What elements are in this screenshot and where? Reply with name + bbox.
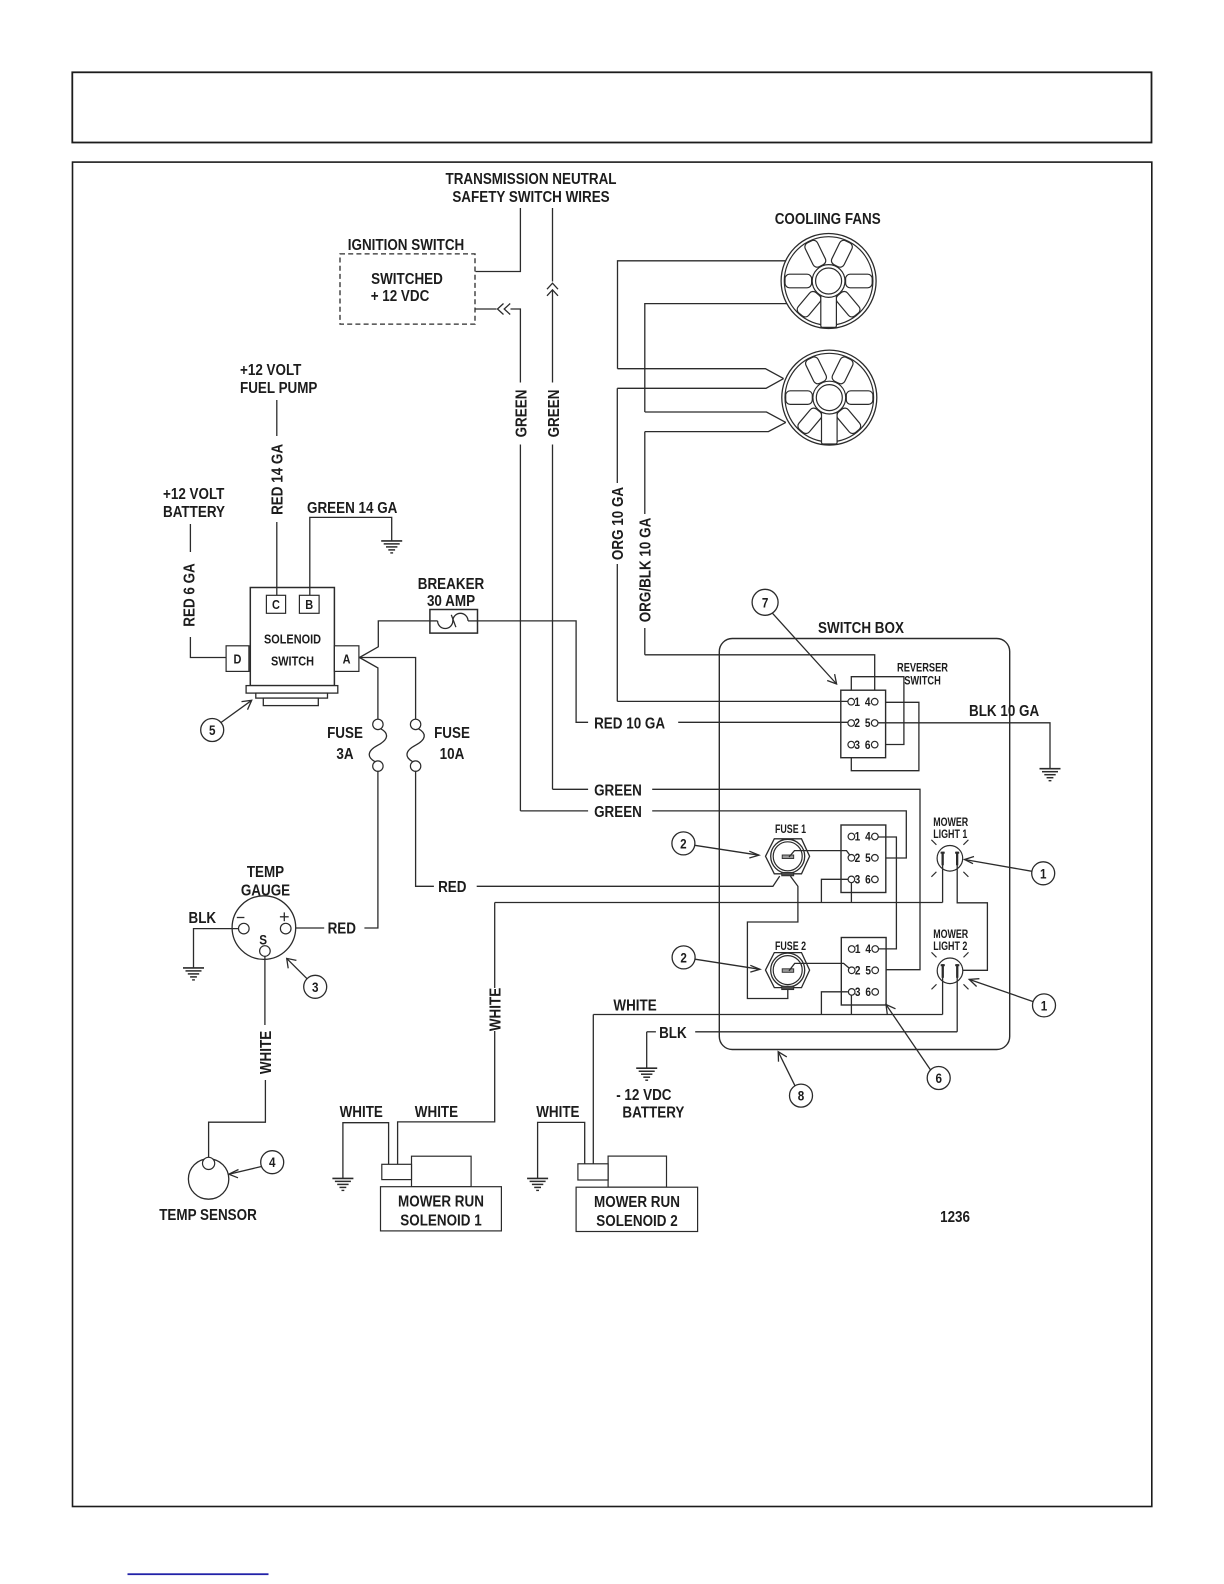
svg-text:WHITE: WHITE xyxy=(536,1104,580,1121)
svg-text:+ 12 VDC: + 12 VDC xyxy=(371,288,430,305)
wire: ignition switch lower output (green, to GREEN row 2) xyxy=(476,309,521,811)
wire: solenoid 2 ground branch xyxy=(538,1122,585,1178)
label: +12 VOLT BATTERY xyxy=(163,486,225,521)
ground (solenoid 2) xyxy=(527,1178,548,1190)
svg-text:SWITCH BOX: SWITCH BOX xyxy=(818,620,904,637)
svg-text:MOWER RUN: MOWER RUN xyxy=(594,1194,680,1211)
svg-text:- 12 VDC: - 12 VDC xyxy=(616,1087,672,1104)
wire: white row 2 (solenoid 2 feed / conn 2 pin 3 / light 2) xyxy=(593,992,942,1164)
svg-text:4: 4 xyxy=(269,1154,276,1170)
label: - 12 VDC BATTERY xyxy=(616,1087,684,1122)
svg-text:WHITE: WHITE xyxy=(340,1104,384,1121)
fuse 2 holder xyxy=(766,953,810,990)
svg-text:COOLIING FANS: COOLIING FANS xyxy=(775,211,881,228)
wire: solenoid 1 ground branch xyxy=(343,1123,389,1178)
label: BREAKER 30 AMP xyxy=(418,576,485,610)
svg-text:1: 1 xyxy=(1040,865,1047,881)
wire: solenoid A to breaker xyxy=(360,621,430,658)
fuse 3A symbol xyxy=(369,719,386,771)
wire: reverser loop pin 3 to pin 4 xyxy=(851,702,919,770)
mower light 1 xyxy=(931,840,968,877)
solenoid terminal B xyxy=(299,595,319,613)
label: +12 VOLT FUEL PUMP xyxy=(240,362,318,397)
ground (-12 VDC battery) xyxy=(636,1068,657,1080)
svg-text:3: 3 xyxy=(312,979,319,995)
svg-text:GREEN: GREEN xyxy=(514,390,531,438)
wire: reverser loop pin 6 to pin 1 xyxy=(851,677,904,745)
svg-text:S: S xyxy=(259,932,267,948)
label: TEMP GAUGE xyxy=(241,864,291,900)
callout circle 3 with arrow xyxy=(287,958,327,998)
solenoid terminal D xyxy=(226,646,249,672)
svg-text:7: 7 xyxy=(762,594,769,610)
svg-text:D: D xyxy=(234,651,242,666)
svg-text:30 AMP: 30 AMP xyxy=(427,593,475,610)
svg-text:C: C xyxy=(272,597,280,612)
page title box (empty) xyxy=(72,72,1151,142)
footer link underline xyxy=(128,1573,269,1575)
svg-text:RED 6 GA: RED 6 GA xyxy=(182,563,199,627)
svg-text:6: 6 xyxy=(935,1070,942,1086)
callout circle 1 (light 2) with arrow xyxy=(969,979,1055,1017)
svg-text:1236: 1236 xyxy=(940,1209,970,1226)
temp sensor body xyxy=(188,1157,228,1199)
label: REVERSER SWITCH xyxy=(897,661,948,688)
wire: BLK 10 GA from reverser pin 5 to ground xyxy=(878,723,1050,769)
wire: transmission neutral wire A (to ignition switch) xyxy=(476,208,521,272)
svg-text:B: B xyxy=(305,597,313,612)
wire: ORG 10 GA vertical xyxy=(616,388,618,701)
svg-text:TEMP SENSOR: TEMP SENSOR xyxy=(159,1207,257,1224)
svg-text:RED: RED xyxy=(438,879,466,896)
label box: MOWER RUN SOLENOID 1 xyxy=(381,1187,502,1231)
ground (green 14 ga) xyxy=(381,541,402,553)
svg-text:10A: 10A xyxy=(440,746,465,763)
reverser switch pin block xyxy=(841,690,886,758)
svg-text:WHITE: WHITE xyxy=(487,988,504,1032)
svg-text:FUSE: FUSE xyxy=(327,725,363,742)
wire: GREEN row 1 to connector 2 pin 5 xyxy=(553,789,921,969)
wire: fan 1 lower lead xyxy=(645,304,787,412)
solenoid terminal C xyxy=(266,595,285,613)
fuse 1 holder xyxy=(766,839,810,876)
svg-text:RED 14 GA: RED 14 GA xyxy=(270,444,287,515)
wire: fan 2 upper connector pair xyxy=(617,369,783,389)
callout circle 2 (fuse 2) with arrow xyxy=(672,946,760,972)
wire: RED 10 GA into reverser pin 2 xyxy=(678,721,848,723)
mower light 2 xyxy=(932,952,969,989)
wire: fuel pump lead (RED 14 GA) xyxy=(276,400,278,595)
wire: tall WHITE wire down to solenoid 1 xyxy=(398,903,495,1165)
svg-text:+12 VOLT: +12 VOLT xyxy=(240,362,302,379)
label: MOWER LIGHT 1 xyxy=(933,815,968,841)
callout circle 8 with arrow xyxy=(778,1052,812,1107)
wire: mower light 1 leads xyxy=(943,865,988,971)
connector block 2 xyxy=(841,938,886,1006)
svg-text:BLK: BLK xyxy=(659,1025,687,1042)
svg-text:TRANSMISSION NEUTRAL: TRANSMISSION NEUTRAL xyxy=(446,171,617,188)
callout circle 1 (light 1) with arrow xyxy=(965,857,1055,885)
wire: fan 1 upper lead xyxy=(618,261,786,369)
wire: ORG 10 GA into reverser pin 1 xyxy=(617,700,848,702)
svg-text:8: 8 xyxy=(798,1088,805,1104)
svg-text:BREAKER: BREAKER xyxy=(418,576,485,593)
wire: mower light 2 leads xyxy=(943,977,958,1031)
temp gauge body xyxy=(232,896,296,960)
svg-text:ORG 10 GA: ORG 10 GA xyxy=(610,487,627,561)
wire: solenoid A to fuse 3A xyxy=(360,658,378,720)
svg-text:2: 2 xyxy=(680,949,687,965)
svg-text:FUSE 1: FUSE 1 xyxy=(775,822,806,836)
wire: fuse 3A to temp gauge + (RED) xyxy=(291,771,378,928)
label: FUSE 10A xyxy=(434,725,470,763)
svg-text:IGNITION SWITCH: IGNITION SWITCH xyxy=(348,237,465,254)
svg-text:GREEN 14 GA: GREEN 14 GA xyxy=(307,500,398,517)
svg-text:LIGHT 1: LIGHT 1 xyxy=(933,827,967,841)
svg-text:WHITE: WHITE xyxy=(258,1031,275,1075)
wire: BLK row to light 2 right lead xyxy=(647,1032,958,1068)
svg-text:SAFETY SWITCH WIRES: SAFETY SWITCH WIRES xyxy=(452,189,610,206)
svg-text:FUEL PUMP: FUEL PUMP xyxy=(240,380,318,397)
ground (BLK 10 GA) xyxy=(1040,769,1061,781)
svg-text:SOLENOID 2: SOLENOID 2 xyxy=(596,1213,677,1230)
solenoid terminal A xyxy=(334,646,359,672)
label box: MOWER RUN SOLENOID 2 xyxy=(576,1187,698,1231)
svg-text:ORG/BLK 10 GA: ORG/BLK 10 GA xyxy=(637,517,654,622)
solenoid switch mounting flanges xyxy=(246,686,338,706)
ground (temp gauge BLK) xyxy=(183,968,204,980)
wire: solenoid A to fuse 10A xyxy=(360,658,416,720)
svg-text:REVERSER: REVERSER xyxy=(897,661,948,675)
svg-text:SOLENOID: SOLENOID xyxy=(264,632,321,647)
wire: ORG/BLK 10 GA into reverser pin 4 xyxy=(645,655,875,699)
svg-text:2: 2 xyxy=(680,835,687,851)
wire: transmission neutral wire B (green, down to GREEN row 1) xyxy=(552,208,554,789)
connector chevrons (up arrows) on wire B xyxy=(547,283,558,296)
ignition switch dashed box xyxy=(340,254,475,324)
callout circle 5 with arrow xyxy=(201,700,252,741)
wire: solenoid B terminal to ground (GREEN 14 GA) xyxy=(310,517,392,595)
svg-text:BATTERY: BATTERY xyxy=(163,504,225,521)
wire: connector 1 pin 4 to connector 2 pin 4 xyxy=(878,837,896,949)
callout circle 4 with arrow xyxy=(229,1151,284,1178)
svg-text:MOWER RUN: MOWER RUN xyxy=(398,1194,484,1211)
breaker 30 amp box and element xyxy=(430,610,478,634)
label: TRANSMISSION NEUTRAL SAFETY SWITCH WIRES xyxy=(446,171,617,206)
svg-text:RED 10 GA: RED 10 GA xyxy=(594,716,665,733)
callout circle 6 with arrow xyxy=(886,1005,950,1090)
wire: breaker output to RED 10 GA row xyxy=(478,621,589,722)
wire: GREEN row 2 to connector 1 pin 5 xyxy=(520,811,906,858)
connector block 1 xyxy=(841,825,886,893)
wire: temp gauge - terminal to ground xyxy=(194,929,239,968)
svg-text:5: 5 xyxy=(209,722,216,738)
svg-text:BATTERY: BATTERY xyxy=(622,1105,684,1122)
mower run solenoid 2 body xyxy=(578,1156,667,1187)
wire: fuse 1 output to connector 1 pin 2 xyxy=(789,851,850,857)
solenoid switch body xyxy=(250,588,334,686)
main diagram border xyxy=(73,162,1152,1506)
svg-text:WHITE: WHITE xyxy=(613,998,657,1015)
svg-text:SWITCH: SWITCH xyxy=(904,674,941,688)
svg-text:SWITCHED: SWITCHED xyxy=(371,271,443,288)
svg-text:3A: 3A xyxy=(336,746,354,763)
wire: temp gauge S lead (WHITE) down to temp sensor xyxy=(209,956,266,1157)
wire: battery lead (RED 6 GA) to D terminal xyxy=(190,524,226,658)
label: SOLENOID SWITCH xyxy=(264,632,321,669)
svg-text:SWITCH: SWITCH xyxy=(271,654,314,669)
label: SWITCHED + 12 VDC xyxy=(371,271,443,305)
fuse 10A symbol xyxy=(407,719,424,771)
cooling fan 1 xyxy=(781,234,876,329)
wire: ORG/BLK 10 GA vertical xyxy=(644,432,646,655)
svg-text:TEMP: TEMP xyxy=(247,864,285,881)
wire: fan 2 lower connector pair xyxy=(645,412,786,432)
svg-text:GREEN: GREEN xyxy=(594,783,642,800)
ground (solenoid 1) xyxy=(332,1178,353,1190)
svg-text:WHITE: WHITE xyxy=(415,1104,459,1121)
mower run solenoid 1 body xyxy=(382,1156,471,1187)
callout circle 7 with arrow xyxy=(752,589,837,684)
wire: fuse 1 bottom crimp to fuse 2 bottom crimp xyxy=(747,876,798,998)
svg-text:FUSE: FUSE xyxy=(434,725,470,742)
svg-text:LIGHT 2: LIGHT 2 xyxy=(933,939,967,953)
svg-text:A: A xyxy=(343,651,351,666)
switch box outline xyxy=(719,639,1009,1050)
svg-text:1: 1 xyxy=(1041,997,1048,1013)
svg-text:GREEN: GREEN xyxy=(546,390,563,438)
svg-text:BLK: BLK xyxy=(189,910,217,927)
wire: white row 1 (solenoid 1 feed / conn 1 pin 3 / light 1) xyxy=(495,879,943,902)
svg-text:+12 VOLT: +12 VOLT xyxy=(163,486,225,503)
label: MOWER LIGHT 2 xyxy=(933,927,968,953)
callout circle 2 (fuse 1) with arrow xyxy=(672,832,759,858)
wire: fuse 2 output to connector 2 pin 2 xyxy=(789,963,849,970)
svg-text:BLK 10 GA: BLK 10 GA xyxy=(969,703,1040,720)
svg-text:FUSE 2: FUSE 2 xyxy=(775,939,806,953)
cooling fan 2 xyxy=(782,350,877,445)
wire: fuse 10A down to RED feed xyxy=(416,771,780,887)
connector chevrons (left arrows) on ignition lower wire xyxy=(498,304,511,315)
svg-text:RED: RED xyxy=(328,921,356,938)
svg-text:GREEN: GREEN xyxy=(594,804,642,821)
svg-text:SOLENOID 1: SOLENOID 1 xyxy=(400,1213,481,1230)
label: FUSE 3A xyxy=(327,725,363,763)
